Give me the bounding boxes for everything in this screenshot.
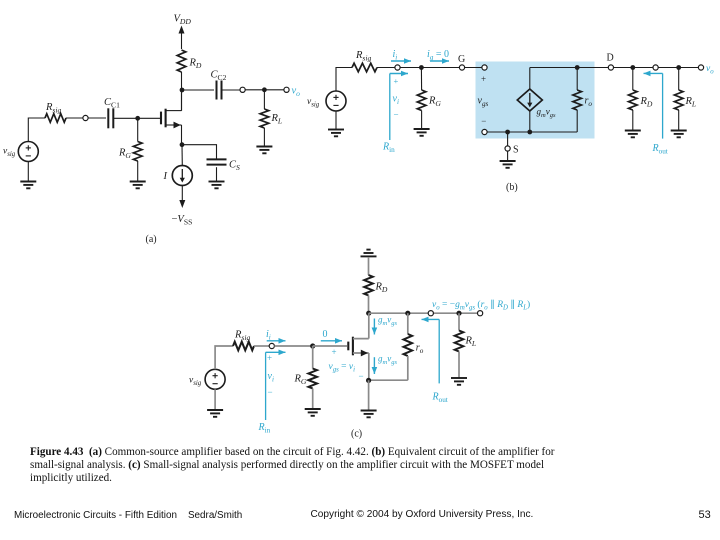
terminal G <box>459 65 464 70</box>
junction RL top (c) <box>456 311 461 316</box>
wire vsig up (c) <box>215 346 233 369</box>
svg-text:vsig: vsig <box>307 97 320 109</box>
wire RG top lead (b) <box>420 68 422 91</box>
wire vsig to ground (c) <box>214 389 216 409</box>
svg-text:(c): (c) <box>351 429 362 440</box>
wire RG to ground (c) <box>312 389 314 409</box>
capacitor CS <box>207 159 227 164</box>
ground RG (b) <box>414 129 430 136</box>
wire model top to D <box>530 67 609 69</box>
svg-text:−: − <box>481 116 486 126</box>
wire gate node to RG <box>137 118 139 141</box>
svg-text:(b): (b) <box>506 182 518 193</box>
wire drain to CC2 <box>182 89 214 91</box>
current arrow ii (b) <box>391 60 411 62</box>
svg-text:CC1: CC1 <box>104 97 120 110</box>
svg-text:RG: RG <box>294 374 307 387</box>
svg-text:−VSS: −VSS <box>172 214 193 227</box>
current arrow ig (b) <box>430 60 449 62</box>
footer book title <box>14 510 242 521</box>
svg-text:−: − <box>268 387 273 397</box>
ground RG (c) <box>305 409 321 416</box>
VSS arrow <box>179 200 185 208</box>
Rout measurement line (c) <box>438 319 440 383</box>
wire gate (c) <box>313 345 347 347</box>
current source I <box>172 166 192 186</box>
svg-text:+: + <box>267 353 272 363</box>
wire drain up (a) <box>181 90 183 111</box>
wire vsig up (b) <box>336 68 352 92</box>
resistor RL (a) <box>260 109 269 128</box>
junction ro top (b) <box>575 65 580 70</box>
ground CS <box>209 182 225 189</box>
wire source to CS <box>182 145 217 160</box>
current arrow ii (c) <box>267 340 286 342</box>
wire source down (c) <box>368 353 370 380</box>
svg-text:S: S <box>513 145 519 156</box>
wire source down (a) <box>181 125 183 145</box>
wire top ground to RD (c) <box>368 257 370 275</box>
svg-text:Rout: Rout <box>432 392 448 405</box>
wire source to ground (c) <box>368 380 370 410</box>
svg-text:RL: RL <box>465 336 477 349</box>
wire node to G terminal <box>421 67 459 69</box>
Rout measurement line (b) <box>662 73 664 138</box>
svg-text:Rin: Rin <box>258 422 271 435</box>
figure caption <box>30 446 610 486</box>
ground RL (c) <box>451 378 467 385</box>
svg-text:G: G <box>458 54 465 65</box>
wire to Rout terminal (b) <box>633 67 653 69</box>
svg-text:Rsig: Rsig <box>355 50 371 63</box>
node drain junction (c) <box>366 311 371 316</box>
ground RG (a) <box>130 182 146 189</box>
wire to S terminal <box>507 132 509 146</box>
junction ro top (c) <box>405 311 410 316</box>
resistor ro (b) <box>573 90 582 110</box>
arrow Rout (b) <box>644 72 663 74</box>
wire ro top lead (c) <box>407 313 409 334</box>
wire source node to current source <box>181 145 183 166</box>
ground RD (b) <box>625 131 641 138</box>
svg-text:0: 0 <box>323 329 328 340</box>
terminal D <box>608 65 613 70</box>
wire vsig to ground (b) <box>335 111 337 129</box>
ground vsig (b) <box>328 130 344 137</box>
svg-text:vsig: vsig <box>189 376 202 388</box>
wire vsig to Rsig <box>28 118 45 142</box>
svg-text:Rsig: Rsig <box>45 102 61 115</box>
svg-text:−: − <box>359 371 364 381</box>
wire RL top lead (b) <box>678 68 680 91</box>
wire RG to ground (b) <box>421 111 423 129</box>
VDD supply arrow <box>181 33 183 49</box>
inverted ground top (c) <box>361 250 377 257</box>
svg-text:I: I <box>163 171 168 182</box>
svg-text:vo: vo <box>292 86 301 99</box>
ground source (c) <box>361 411 377 418</box>
wire S to ground <box>507 151 509 160</box>
node source junction (a) <box>180 142 185 147</box>
footer page number <box>699 509 711 521</box>
svg-text:ii: ii <box>393 49 398 62</box>
svg-text:Rout: Rout <box>652 143 668 156</box>
svg-text:−: − <box>394 110 399 120</box>
wire RD top lead (b) <box>632 68 634 91</box>
svg-text:RD: RD <box>189 58 202 71</box>
wire RG top lead (c) <box>312 346 314 369</box>
svg-text:RD: RD <box>375 282 388 295</box>
wire terminal to RG node (c) <box>274 345 312 347</box>
vi measurement line (c) <box>265 352 267 420</box>
wire current source to VSS <box>181 186 183 201</box>
input terminal (c) <box>269 343 274 348</box>
node RG top (c) <box>310 343 315 348</box>
arrow vi top (c) <box>266 351 286 353</box>
svg-text:vo: vo <box>706 64 714 76</box>
model input terminal - <box>482 129 487 134</box>
vi measurement line (b) <box>389 74 391 141</box>
wire ro top lead <box>576 68 578 91</box>
ground RL (b) <box>671 131 687 138</box>
svg-text:vi: vi <box>268 371 274 384</box>
wire terminal to RL node <box>245 89 264 91</box>
resistor RD (b) <box>629 90 638 110</box>
terminal out mid (b) <box>653 65 658 70</box>
node gate junction (a) <box>135 116 140 121</box>
wire drain rail (c) <box>369 312 480 314</box>
output terminal vo (b) <box>698 65 703 70</box>
resistor RG (c) <box>308 369 317 389</box>
svg-text:+: + <box>332 347 337 357</box>
wire terminal to CC1 <box>88 117 106 119</box>
svg-text:CS: CS <box>229 160 240 173</box>
svg-text:ii: ii <box>266 329 271 342</box>
wire Rsig to terminal <box>66 117 83 119</box>
svg-text:gmvgs: gmvgs <box>378 353 397 366</box>
resistor ro (c) <box>404 334 413 356</box>
svg-text:vi: vi <box>393 94 399 107</box>
current arrow zero (c) <box>321 340 342 342</box>
wire to output terminal (a) <box>264 89 284 91</box>
wire Rsig to terminal (b) <box>377 67 395 69</box>
resistor Rsig (c) <box>233 342 254 351</box>
terminal mid rail (c) <box>428 311 433 316</box>
capacitor CC2 <box>217 81 222 100</box>
node RD top (b) <box>630 65 635 70</box>
arrow gmvgs lower (c) <box>373 357 375 374</box>
terminal S <box>505 146 510 151</box>
wire terminal to node (b) <box>400 67 421 69</box>
svg-text:D: D <box>607 53 614 64</box>
ground vsig (a) <box>20 182 36 189</box>
resistor RL (b) <box>674 90 683 110</box>
node drain junction (a) <box>180 88 185 93</box>
wire RL node down <box>263 90 265 109</box>
junction S top (b) <box>505 130 510 135</box>
transistor Q (c) <box>348 337 369 357</box>
wire to vo terminal (b) <box>679 67 699 69</box>
wire to RL node (b) <box>658 67 679 69</box>
wire G to model box <box>465 67 482 69</box>
svg-text:(a): (a) <box>146 234 157 245</box>
svg-text:Rin: Rin <box>382 142 395 155</box>
svg-text:RG: RG <box>428 96 441 109</box>
terminal vo (c) <box>478 311 483 316</box>
source vsig (b) <box>326 91 346 111</box>
resistor RG (b) <box>417 90 426 111</box>
arrow gmvgs upper (c) <box>373 319 375 335</box>
wire RL to ground (b) <box>678 110 680 130</box>
wire gm source bottom <box>529 111 531 132</box>
svg-text:vsig: vsig <box>3 147 16 159</box>
input terminal (b) <box>395 65 400 70</box>
svg-text:gmvgs: gmvgs <box>378 315 397 328</box>
wire RG to ground <box>137 161 139 181</box>
MOSFET model shaded box <box>476 62 595 139</box>
wire D to RD node (b) <box>614 67 633 69</box>
wire RL to ground <box>263 128 265 146</box>
arrow vi top (b) <box>390 73 408 75</box>
node RG top (b) <box>419 65 424 70</box>
node source junction (c) <box>366 378 371 383</box>
wire RD to drain (c) <box>368 296 370 314</box>
svg-text:vgs = vi: vgs = vi <box>329 362 356 374</box>
node RL top (b) <box>676 65 681 70</box>
wire model bottom <box>487 131 577 133</box>
wire ro bottom lead <box>576 110 578 132</box>
wire gm source top <box>529 68 531 90</box>
resistor RL (c) <box>455 331 464 352</box>
ground RL (a) <box>256 147 272 154</box>
svg-text:Rsig: Rsig <box>234 330 250 343</box>
footer copyright <box>311 509 534 520</box>
node RL top (a) <box>262 87 267 92</box>
transistor Q (a) <box>161 109 182 129</box>
svg-text:RL: RL <box>685 96 697 109</box>
wire CC1 to gate node <box>113 117 137 119</box>
wire CS to ground <box>216 167 218 181</box>
wire RD to ground (b) <box>632 110 634 130</box>
resistor RG (a) <box>133 142 142 162</box>
input terminal (a) <box>83 115 88 120</box>
wire CC2 to terminal <box>222 89 241 91</box>
source vsig (c) <box>205 369 225 389</box>
resistor RD <box>177 50 186 72</box>
dependent source gm*vgs (b) <box>517 89 542 111</box>
junction gm source bottom (b) <box>527 130 532 135</box>
wire vsig to ground (a) <box>27 162 29 182</box>
svg-text:+: + <box>481 74 486 84</box>
wire RL to ground (c) <box>458 352 460 378</box>
svg-text:vo = −gmvgs (ro ∥ RD ∥ RL): vo = −gmvgs (ro ∥ RD ∥ RL) <box>432 299 530 312</box>
resistor RD (c) <box>364 275 373 296</box>
source vsig (a) <box>18 142 38 162</box>
resistor Rsig (a) <box>45 114 66 123</box>
svg-text:RL: RL <box>271 113 283 126</box>
wire drain up (c) <box>368 313 370 338</box>
svg-text:ig = 0: ig = 0 <box>427 49 449 62</box>
svg-text:CC2: CC2 <box>211 70 227 83</box>
capacitor CC1 <box>108 108 113 128</box>
output terminal vo (a) <box>284 87 289 92</box>
wire Rsig to terminal (c) <box>254 345 269 347</box>
svg-text:RD: RD <box>640 96 653 109</box>
ground S (b) <box>500 161 516 168</box>
wire RL top lead (c) <box>458 313 460 330</box>
wire RD to drain <box>181 72 183 111</box>
svg-text:ro: ro <box>416 343 424 356</box>
model input terminal + <box>482 65 487 70</box>
svg-text:+: + <box>394 76 399 86</box>
svg-text:VDD: VDD <box>174 14 192 27</box>
wire ro bottom lead (c) <box>407 356 409 380</box>
ground vsig (c) <box>207 410 223 417</box>
svg-text:RG: RG <box>118 148 131 161</box>
wire gate node to gate <box>138 117 160 119</box>
terminal after CC2 <box>240 87 245 92</box>
resistor Rsig (b) <box>352 63 377 72</box>
arrow Rout (c) <box>422 318 440 320</box>
wire source rail (c) <box>369 379 408 381</box>
